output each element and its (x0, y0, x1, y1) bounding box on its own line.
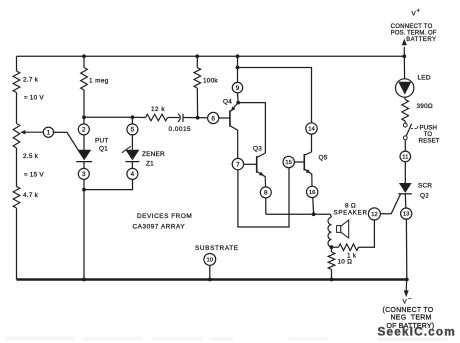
wire node10 to bottom rail (209, 265, 211, 279)
wire LED to 390 (404, 97, 406, 99)
svg-text:8 Ω: 8 Ω (345, 203, 356, 210)
wire 100k top stub (196, 56, 198, 67)
wire branch to node14 column (238, 68, 312, 124)
node 5 terminal (127, 124, 138, 135)
wire left column top segment (16, 56, 18, 71)
wire 1meg bottom to bus (83, 90, 85, 117)
wire 10ohm to bottom rail (331, 270, 333, 280)
svg-text:1: 1 (47, 130, 51, 137)
resistor 100 k (194, 68, 201, 89)
svg-text:9: 9 (236, 85, 240, 92)
transistor Q5 emitter with arrow (305, 169, 312, 186)
svg-text:CA3097 ARRAY: CA3097 ARRAY (133, 224, 186, 231)
resistor 4.7 k (13, 187, 20, 209)
svg-text:2.5 k: 2.5 k (23, 153, 39, 160)
svg-text:390Ω: 390Ω (417, 103, 433, 110)
wire PUT cathode to node3 (83, 162, 85, 169)
junction dot node2 bus (82, 115, 86, 119)
V+ arrow (402, 39, 407, 57)
svg-text:13: 13 (403, 212, 410, 218)
SCR Q2 cathode bar (398, 193, 411, 195)
wire branch down to node9 (237, 68, 239, 83)
wire node13 to bottom rail (405, 219, 407, 279)
svg-text:5: 5 (131, 127, 135, 134)
node 3 terminal (78, 168, 89, 179)
zener Z1 triangle (125, 150, 139, 161)
junction dot 100k top (195, 54, 199, 58)
svg-text:11: 11 (402, 155, 408, 161)
junction dot speaker line (312, 212, 316, 216)
svg-text:7: 7 (236, 161, 240, 168)
node 16 terminal (307, 186, 318, 197)
junction dot V+ on rail (402, 54, 406, 58)
svg-text:Z1: Z1 (146, 161, 154, 168)
transistor Q3 bar (256, 156, 258, 173)
wire Q4 junction to Q3 collector column (238, 103, 265, 153)
svg-text:2.7 k: 2.7 k (23, 77, 39, 84)
speaker coil (328, 217, 332, 247)
wire left column between pot and 4.7k (16, 148, 18, 187)
svg-text:Q1: Q1 (99, 146, 108, 153)
node 14 terminal (306, 123, 317, 134)
svg-text:V: V (403, 299, 408, 306)
svg-text:CONNECT TO: CONNECT TO (391, 24, 433, 30)
resistor 10 ohm (328, 252, 335, 270)
wire node12 to SCR gate (380, 194, 400, 214)
wire node3 to node4 link (84, 179, 133, 189)
node 8 terminal (260, 187, 271, 198)
junction dot 1meg top (82, 54, 86, 58)
wire top supply rail (17, 55, 405, 57)
svg-text:10 Ω: 10 Ω (338, 259, 353, 266)
svg-text:≈ 15 V: ≈ 15 V (24, 172, 44, 179)
svg-text:≈ 10 V: ≈ 10 V (24, 95, 44, 102)
svg-text:15: 15 (285, 160, 292, 166)
capacitor 0.0015 curved plate (178, 114, 180, 122)
PUT Q1 cathode bar (76, 161, 92, 163)
wire node5 to zener (131, 135, 133, 150)
node 12 terminal (368, 208, 380, 220)
wire node7 down and across to node15 (238, 168, 289, 228)
wire rail to LED (403, 56, 405, 78)
transistor Q5 bar (303, 154, 305, 171)
transistor Q3 emitter with arrow (257, 172, 266, 188)
svg-text:2: 2 (82, 127, 86, 134)
svg-text:DEVICES FROM: DEVICES FROM (137, 213, 192, 220)
svg-text:Q5: Q5 (319, 155, 328, 162)
node 2 terminal (78, 124, 89, 135)
svg-text:SCR: SCR (418, 183, 432, 190)
svg-text:POS. TERM. OF: POS. TERM. OF (391, 30, 437, 36)
svg-text:−: − (408, 297, 412, 303)
svg-text:4: 4 (131, 171, 135, 178)
wire bus node2 to node5 (84, 116, 132, 118)
wire 12k to capacitor (168, 117, 180, 119)
node 13 terminal (401, 208, 412, 219)
svg-text:6: 6 (211, 115, 215, 122)
svg-text:(CONNECT TO: (CONNECT TO (383, 307, 434, 314)
junction dot 100k bottom (196, 116, 200, 120)
switch dashed link (411, 125, 418, 128)
transistor Q5 collector (305, 152, 312, 155)
speaker horn symbol (337, 220, 349, 238)
node 10 terminal substrate (204, 254, 216, 266)
wire node6 to Q4 base (219, 117, 230, 119)
junction dot 10ohm on rail (330, 278, 334, 282)
junction dot node3 on bottom rail (82, 278, 86, 282)
wire capacitor to node6 (183, 117, 208, 119)
switch arm (406, 124, 411, 136)
svg-text:SPEAKER: SPEAKER (334, 210, 368, 217)
wire 100k bottom to junction (196, 88, 198, 118)
wire coil to junction (331, 247, 333, 252)
svg-text:SUBSTRATE: SUBSTRATE (195, 245, 239, 252)
junction dot coil bottom (330, 245, 334, 249)
resistor 12 k (146, 114, 168, 121)
wire bottom ground rail (17, 278, 408, 280)
transistor Q4 emitter with arrow (230, 103, 238, 112)
svg-text:8: 8 (264, 190, 268, 197)
wire switch to node11 (404, 140, 406, 152)
PUT Q1 anode triangle (77, 150, 91, 161)
svg-text:10: 10 (207, 258, 214, 264)
svg-text:12: 12 (371, 212, 378, 218)
svg-text:LED: LED (418, 75, 431, 82)
switch top contact (403, 123, 407, 127)
V- arrow (404, 280, 409, 298)
transistor Q4 bar (229, 110, 231, 126)
wire bus to 12k (132, 116, 145, 118)
node 6 terminal (208, 112, 219, 123)
wire node16 down to junction (312, 198, 315, 215)
wire zener to node4 (131, 162, 133, 169)
svg-text:100k: 100k (203, 78, 218, 85)
resistor 1 k (339, 244, 359, 251)
node 9 terminal (232, 82, 242, 92)
svg-text:4.7 k: 4.7 k (23, 192, 39, 199)
wire node2 to PUT anode (83, 135, 85, 150)
node 1 terminal (43, 127, 53, 137)
wire node3 down (83, 179, 85, 189)
junction dot node10 on rail (208, 278, 212, 282)
wire node7 to Q3 base (244, 163, 257, 165)
wire 1meg column top stub (83, 56, 85, 67)
junction dot below node3 (82, 188, 86, 192)
faint bottom scan artifact (6, 337, 448, 341)
node 4 terminal (127, 168, 138, 179)
resistor 2.7 k (13, 71, 20, 93)
wire node3 junction to bottom rail (83, 190, 85, 280)
wire speaker feed line (266, 214, 332, 217)
wire node8 down to speaker line (265, 198, 267, 214)
LED circle (396, 79, 414, 97)
wire node5 stub (131, 117, 133, 124)
transistor Q3 collector (257, 153, 265, 157)
wire node14 to Q5 collector (311, 134, 313, 152)
potentiometer 2.5 k (13, 124, 20, 149)
wire rail down to branch junction (237, 56, 239, 67)
svg-text:14: 14 (308, 127, 315, 133)
junction dot node14 branch (236, 66, 240, 70)
wire node2 stub (83, 117, 85, 124)
svg-text:NEG TERM: NEG TERM (391, 315, 432, 322)
switch bottom contact (403, 136, 407, 140)
junction dot node5 bus (131, 115, 135, 119)
node 11 terminal (400, 151, 411, 162)
svg-text:Q4: Q4 (223, 99, 232, 106)
svg-text:SeekIC.com: SeekIC.com (378, 325, 456, 339)
transistor Q4 collector (230, 126, 238, 159)
junction dot V- on rail (405, 278, 409, 282)
node 15 terminal (283, 156, 294, 167)
potentiometer wiper arrow (20, 130, 43, 134)
resistor 390 ohm (402, 100, 409, 122)
wire left column bottom segment (16, 208, 18, 280)
junction dot Q4 emitter (236, 101, 240, 105)
wire left column between 2.7k and pot (16, 93, 18, 124)
wire coil junction to 1k (332, 246, 339, 248)
LED triangle (398, 82, 411, 95)
SCR Q2 triangle (399, 183, 412, 193)
svg-text:ZENER: ZENER (142, 151, 165, 158)
junction dot Q4 branch on rail (236, 54, 240, 58)
wire SCR to node13 (404, 194, 407, 208)
resistor 1 meg (81, 68, 88, 91)
capacitor 0.0015 flat plate (182, 114, 184, 122)
wire node12 down to 1k (359, 220, 375, 247)
wire node15 to Q5 base (294, 161, 304, 163)
svg-text:Q2: Q2 (420, 193, 429, 200)
svg-text:1 meg: 1 meg (89, 78, 109, 85)
wire 390 to switch (404, 121, 406, 123)
wire node11 to SCR anode (404, 162, 406, 183)
svg-text:3: 3 (82, 171, 86, 178)
svg-text:0.0015: 0.0015 (169, 126, 192, 133)
svg-text:12 k: 12 k (151, 106, 165, 113)
zener Z1 tick mark (122, 146, 131, 153)
svg-text:+: + (417, 9, 421, 15)
node 7 terminal (232, 158, 243, 169)
svg-text:PUT: PUT (95, 138, 109, 145)
svg-text:BATTERY: BATTERY (406, 37, 436, 43)
svg-text:RESET: RESET (419, 138, 440, 145)
wire node1 to PUT gate (54, 132, 79, 150)
svg-text:Q3: Q3 (253, 146, 262, 153)
zener Z1 cathode bar (125, 161, 139, 163)
wire node9 to Q4 emitter junction (237, 93, 240, 103)
svg-text:16: 16 (309, 190, 316, 196)
